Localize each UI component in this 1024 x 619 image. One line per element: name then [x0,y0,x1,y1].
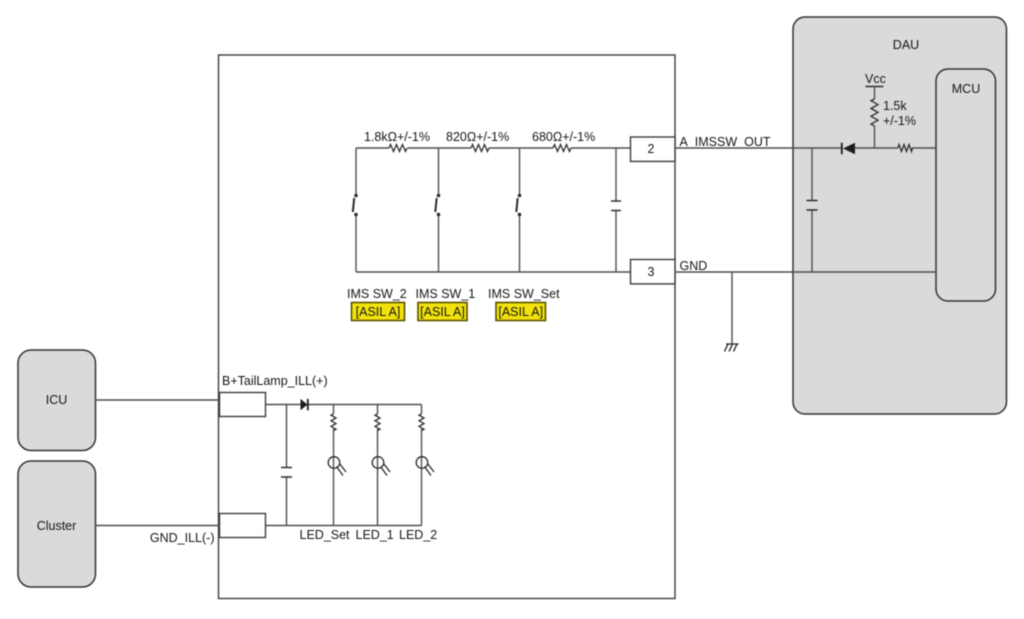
svg-text:GND: GND [680,259,708,273]
module enclosure box [219,55,676,599]
svg-text:GND_ILL(-): GND_ILL(-) [150,531,215,545]
svg-text:1.8kΩ+/-1%: 1.8kΩ+/-1% [364,130,430,144]
svg-text:IMS SW_2: IMS SW_2 [347,287,407,301]
wire: ICU to illumination pin [96,399,220,401]
capacitor C1 (module) [611,148,621,272]
DAU block [793,17,1007,414]
wire: A_IMSSW_OUT to DAU [675,147,936,149]
connector pin GND_ILL [150,514,266,546]
resistor R2 820 [446,130,509,152]
wire: lamp bottom rail [266,525,422,527]
ASIL A tag for SW_Set [496,303,546,321]
switch IMS SW_2 [347,194,407,301]
resistor R8 (LED_2) [419,414,424,431]
wire: branch 2 vertical [438,148,440,272]
wire: lamp top rail [266,404,422,406]
ASIL A tag for SW_1 [418,303,467,321]
resistor R1 1.8k [364,130,430,152]
ICU block [18,350,96,451]
svg-text:680Ω+/-1%: 680Ω+/-1% [532,130,595,144]
wire: GND to MCU [675,271,936,273]
svg-text:820Ω+/-1%: 820Ω+/-1% [446,130,509,144]
svg-text:LED_2: LED_2 [399,528,437,542]
wire: LED_2 branch [421,405,423,526]
LED LED_1 [356,457,394,542]
svg-text:+/-1%: +/-1% [883,114,916,128]
svg-text:DAU: DAU [893,38,919,52]
svg-text:[ASIL A]: [ASIL A] [420,305,465,319]
svg-text:3: 3 [648,265,655,279]
diode D1 (lamp supply, pointing right) [301,399,308,410]
svg-text:B+TailLamp_ILL(+): B+TailLamp_ILL(+) [222,374,328,388]
svg-text:MCU: MCU [952,82,980,96]
wire: bottom rail GND net inside module [356,271,631,273]
connector pin B+TailLamp [220,374,328,417]
svg-text:2: 2 [648,142,655,156]
Cluster block [18,461,96,587]
svg-text:1.5k: 1.5k [883,99,907,113]
wire: LED_1 branch [377,405,379,526]
wire: LED_Set branch [333,405,335,526]
svg-text:Vcc: Vcc [865,72,886,86]
resistor R5 (series to MCU) [898,145,913,152]
svg-text:LED_1: LED_1 [356,528,394,542]
capacitor C3 (lamp filter) [281,405,292,526]
wire: branch 3 vertical [519,148,521,272]
resistor R7 (LED_1) [375,414,380,431]
svg-text:ICU: ICU [46,393,68,407]
wire: top rail A_IMSSW net inside module [356,147,631,149]
net label GND [680,259,708,273]
svg-text:LED_Set: LED_Set [300,528,351,542]
resistor R6 (LED_Set) [331,414,336,431]
switch IMS SW_1 [416,194,476,301]
wire: Cluster to GND_ILL pin [96,525,220,527]
svg-text:[ASIL A]: [ASIL A] [498,305,543,319]
resistor R3 680 [532,130,595,152]
MCU block U1 [936,69,996,301]
connector pin 2 [631,137,676,161]
net label A_IMSSW_OUT [680,135,771,149]
connector pin 3 [631,260,676,284]
ASIL A tag for SW_2 [352,303,405,321]
svg-text:A_IMSSW_OUT: A_IMSSW_OUT [680,135,771,149]
Vcc supply [865,72,886,99]
svg-text:IMS SW_Set: IMS SW_Set [488,287,560,301]
wire: branch 1 vertical [355,148,357,272]
svg-text:[ASIL A]: [ASIL A] [356,305,401,319]
resistor R4 1.5k (pull-up) [871,99,916,148]
capacitor C2 (DAU filter) [807,148,818,272]
switch IMS SW_Set [488,194,560,301]
LED LED_2 [399,457,437,542]
svg-text:IMS SW_1: IMS SW_1 [416,287,476,301]
LED LED_Set [300,457,351,542]
svg-text:Cluster: Cluster [37,519,77,533]
ground symbol [725,272,739,352]
diode D2 (DAU input, pointing left) [842,143,855,154]
